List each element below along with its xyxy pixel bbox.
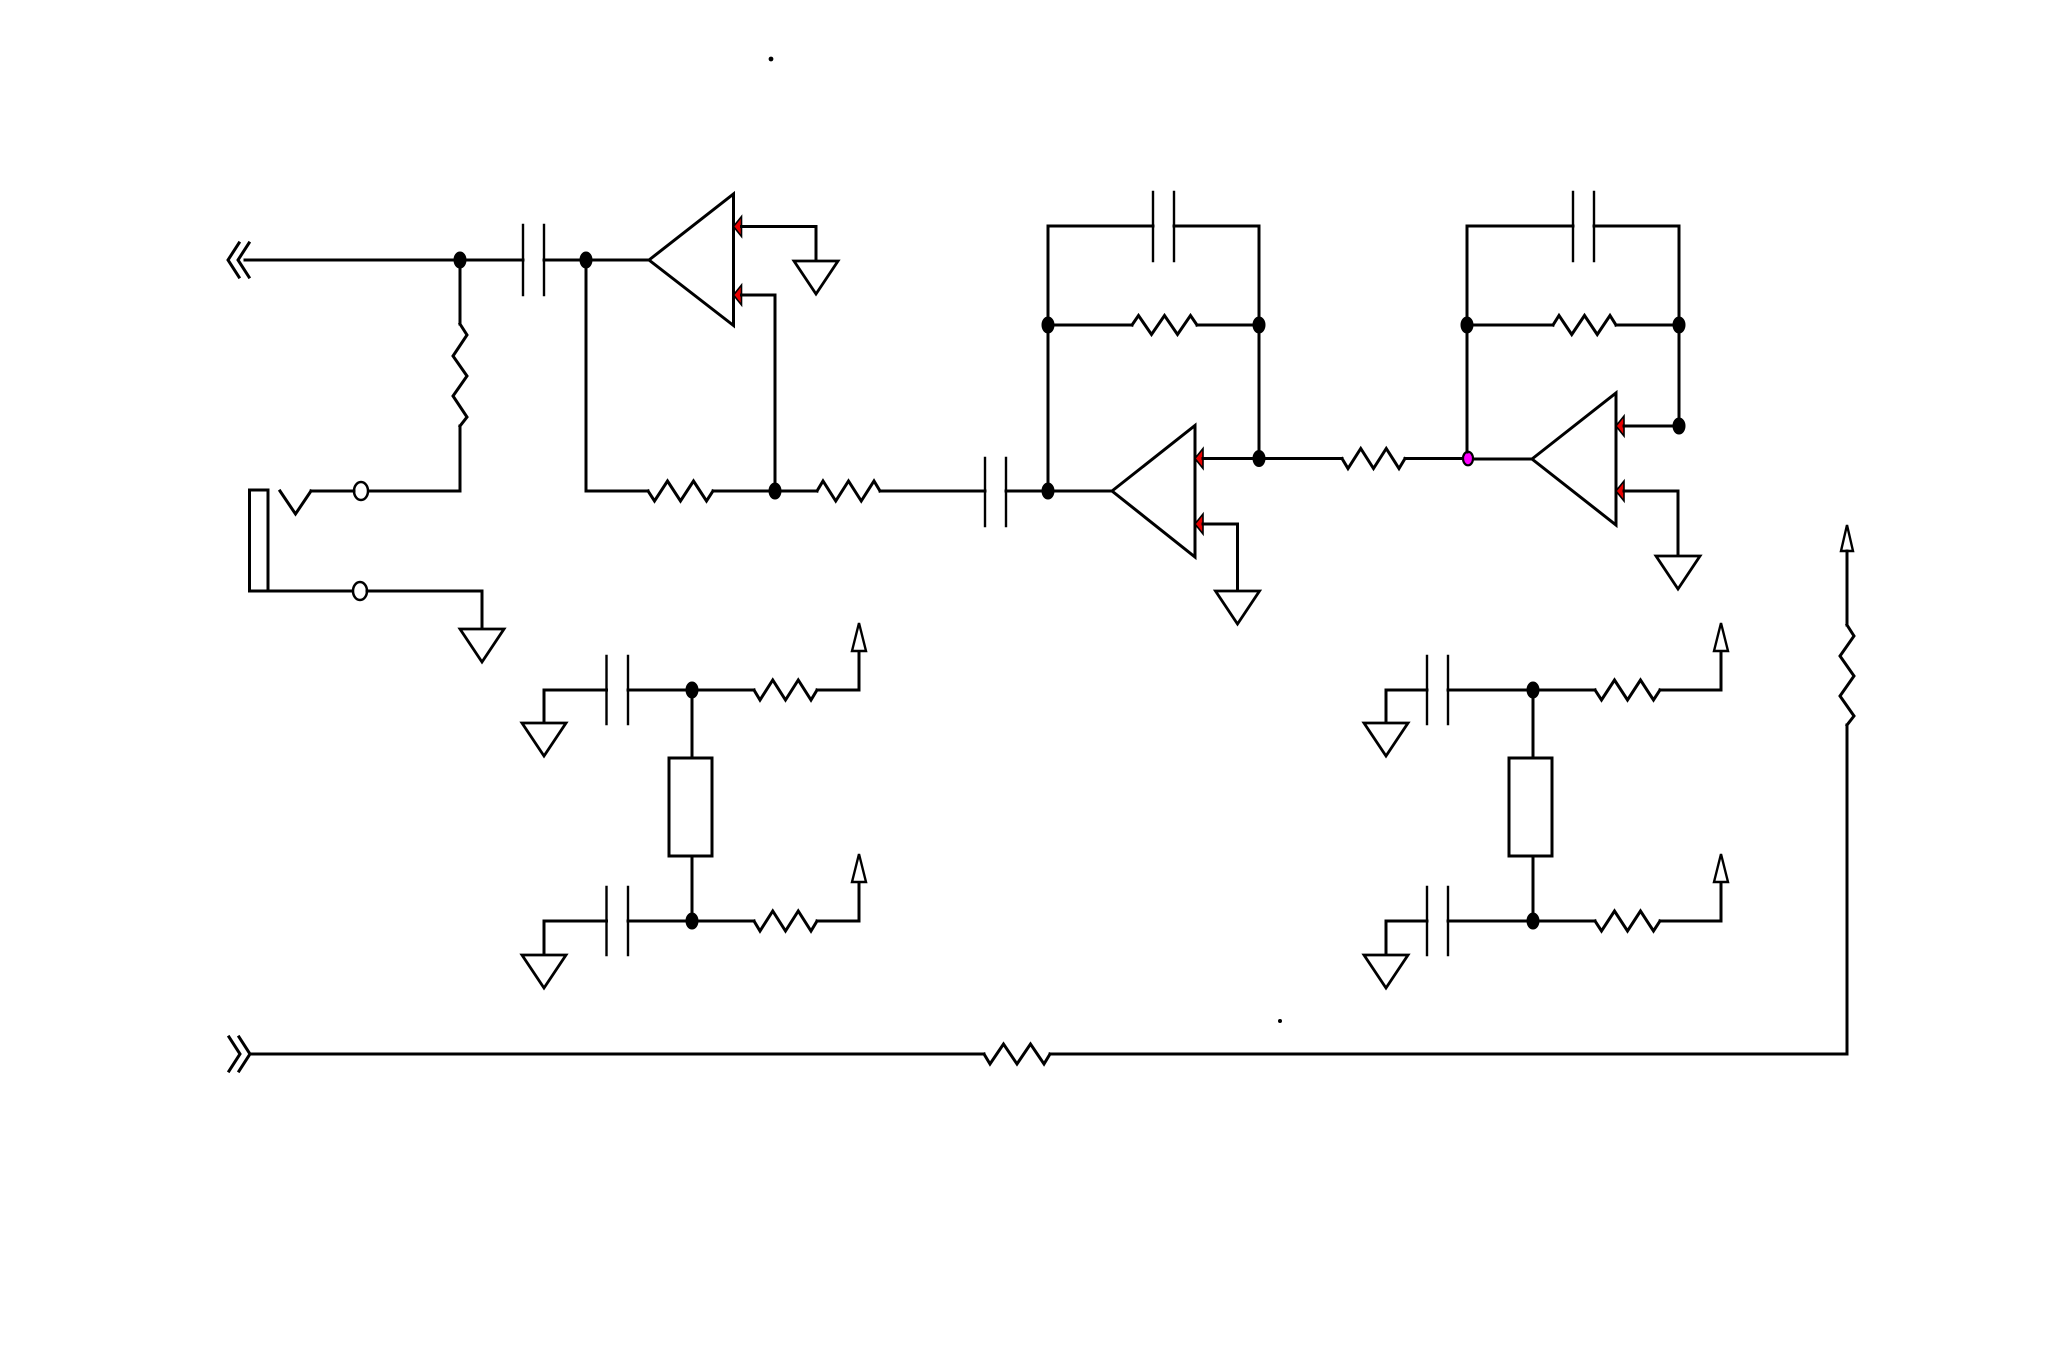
wire node C to R3 [775,490,817,493]
wire C1 to node B [544,259,586,262]
wire R10 to power arrow [1660,882,1721,921]
node D [1043,484,1053,498]
wire node L to box RV1 [691,690,694,758]
capacitor C5 (left T top) [607,656,629,724]
wire box RV1 to node M [691,856,694,921]
ground GND3 [1216,591,1260,624]
wire R1 to jack row [459,426,462,491]
wire node N to box RV2 [1532,690,1535,758]
wire U3 bottom pin to ground [1624,491,1678,555]
capacitor C2 [985,458,1006,526]
wire U1 bottom pin down to feedback node [742,295,776,491]
contact circle jack sleeve [353,582,367,600]
node B [581,253,591,267]
resistor R2 [648,481,713,501]
pin arrow U3 bottom input [1616,481,1624,501]
power arrow P3 [1714,623,1728,651]
resistor R6 (U3 feedback) [1553,316,1616,335]
wire left T-filter top ground stub [544,690,607,723]
wire U2 feedback left vertical [1047,226,1050,491]
capacitor C7 (right T top) [1427,656,1448,724]
wire U2 feedback top row left [1048,225,1153,228]
ground GND7 [1364,723,1408,756]
node G [1254,452,1264,466]
node O [1528,914,1538,928]
power arrow P2 [852,854,866,882]
contact circle jack tip [354,482,368,500]
jack J1 body [250,490,269,591]
wire R3 to C2 [880,490,985,493]
node M [687,914,697,928]
wire left T-filter bottom ground stub [544,921,607,955]
wire node N to R9 [1533,689,1595,692]
resistor R9 (right T top) [1595,680,1660,700]
speck dot top [769,57,774,62]
wire bottom rail right [1050,1053,1847,1056]
wire right T-filter bottom ground stub [1386,921,1427,955]
wire C8 to node O [1448,920,1533,923]
wire R4 to node H [1405,457,1467,460]
wire R11 down to bottom rail [1846,725,1849,1054]
wire jack sleeve row [250,590,354,593]
wire U3 top pin to node K [1624,425,1679,428]
wire node D to op-amp U2 [1048,490,1112,493]
node C [770,484,780,498]
wire sleeve circle to ground [367,591,482,629]
wire node M to R8 [692,920,754,923]
ground GND1 [794,261,838,294]
box element RV2 (right T) [1509,758,1552,856]
capacitor C6 (left T bottom) [607,887,629,955]
node E (U2 fb left, resistor row) [1043,318,1053,332]
pin arrow U1 bottom input [734,285,742,305]
node A [455,253,465,267]
resistor R5 (U2 feedback) [1132,316,1197,335]
wire right T-filter top ground stub [1386,690,1427,723]
ground GND6 [522,955,566,988]
wire node L to R7 [692,689,754,692]
wire node B to op-amp U1 [586,259,649,262]
node L [687,683,697,697]
box element RV1 (left T) [669,758,712,856]
wire P5 to R11 [1846,551,1849,625]
wire input to node A [245,259,460,262]
node K [1674,419,1684,433]
resistor R7 (left T top) [754,680,817,700]
capacitor C3 (U2 feedback) [1153,192,1174,261]
resistor R10 (right T bottom) [1595,911,1660,931]
wire R9 to power arrow [1660,651,1721,690]
pin arrow U1 top input [734,217,742,237]
wire U3 resistor row right [1616,324,1679,327]
wire U3 feedback left vertical [1466,226,1469,452]
wire U2 resistor row right [1197,324,1259,327]
node H (magenta) [1463,452,1473,466]
speck dot bottom [1278,1019,1282,1023]
wire U1 top pin to ground [742,227,817,260]
resistor R1 (vertical) [453,324,467,426]
node I (U3 fb left, resistor row) [1462,318,1472,332]
wire U2 top pin to node G [1203,457,1259,460]
wire R2 to node C [713,490,775,493]
wire U2 feedback top row right [1174,225,1259,228]
wire C5 to node L [628,689,692,692]
wire U2 bottom pin to ground [1203,524,1238,590]
op-amp U3 [1532,393,1616,525]
resistor R3 [817,481,880,501]
wire U3 resistor row left [1467,324,1553,327]
wire node O to R10 [1533,920,1595,923]
output connector OUT (double chevron) [229,1037,250,1071]
wire node B down to feedback row [585,260,588,491]
input connector IN (double chevron) [228,243,249,277]
capacitor C4 (U3 feedback) [1573,192,1594,261]
wire node G to R4 [1259,457,1342,460]
op-amp U2 [1112,426,1195,558]
wire R8 to power arrow [817,882,859,921]
power arrow P5 (far right) [1841,525,1853,551]
pin arrow U2 top input [1195,449,1203,469]
node J (U3 fb right, resistor row) [1674,318,1684,332]
wire vertical node A to R1 [459,260,462,324]
capacitor C8 (right T bottom) [1427,887,1448,955]
wire node H to op-amp U3 [1467,458,1532,461]
wire jack tip row [368,490,460,493]
wire box RV2 to node O [1532,856,1535,921]
wire U2 feedback right vertical [1258,226,1261,459]
wire R7 to power arrow [817,651,859,690]
node F (U2 fb right, resistor row) [1254,318,1264,332]
wire C2 to node D [1006,490,1048,493]
pin arrow U2 bottom input [1195,514,1203,534]
wire U3 feedback top row right [1594,225,1679,228]
wire U3 feedback right vertical [1678,226,1681,426]
power arrow P4 [1714,854,1728,882]
wire circle to tip spring [311,490,354,493]
wire U2 resistor row left [1048,324,1132,327]
power arrow P1 [852,623,866,651]
ground GND4 [1656,556,1700,589]
ground GND5 [522,723,566,756]
ground GND2 [460,629,504,662]
wire C6 to node M [628,920,692,923]
resistor R12 (bottom rail) [984,1044,1050,1064]
resistor R11 (far right vertical) [1840,625,1854,725]
wire feedback row left [586,490,648,493]
jack J1 tip spring contact [280,491,311,514]
wire node A to C1 [460,259,523,262]
capacitor C1 [523,225,544,295]
resistor R8 (left T bottom) [754,911,817,931]
op-amp U1 [649,194,734,326]
wire bottom rail left [250,1053,984,1056]
ground GND8 [1364,955,1408,988]
pin arrow U3 top input [1616,416,1624,436]
node N [1528,683,1538,697]
wire U3 feedback top row left [1467,225,1573,228]
wire C7 to node N [1448,689,1533,692]
resistor R4 [1342,449,1405,469]
